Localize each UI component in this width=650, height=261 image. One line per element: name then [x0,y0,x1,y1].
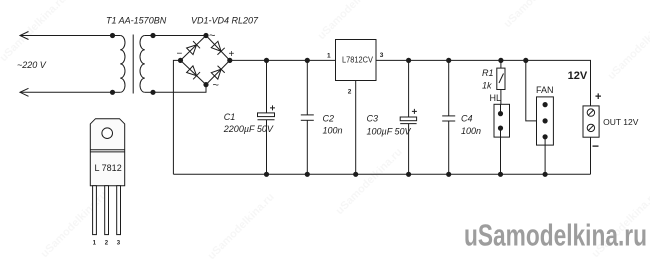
junction U1 pin2 bottom [354,172,358,176]
svg-text:FAN: FAN [536,85,554,95]
svg-text:~: ~ [209,30,215,42]
wire top rail left (bridge plus to U1 pin1) [230,59,336,61]
TO-220 package L7812 pinout drawing [90,119,124,235]
node bridge plus [228,58,232,62]
svg-text:12V: 12V [568,70,588,82]
label R1 value [482,68,494,90]
svg-text:VD1-VD4 RL207: VD1-VD4 RL207 [191,16,259,26]
label C3 value [367,114,412,137]
svg-text:HL: HL [490,93,502,103]
diode VD2 bridge top-right [206,36,230,61]
transformer T1 secondary winding [140,33,155,94]
capacitor C3 [400,60,417,174]
svg-text:C1: C1 [224,112,236,122]
junction FAN bottom [543,172,547,176]
junction C2 top [305,58,309,62]
capacitor C2 [301,60,314,174]
diode VD1 bridge top-left [181,36,207,61]
junction C2 bottom [305,172,309,176]
diode VD4 bridge bottom-right [206,60,230,84]
svg-text:3: 3 [380,52,384,59]
wire top rail right (U1 pin3 to output) [376,60,591,106]
wire AC input line bottom with arrow [20,88,113,96]
svg-text:−: − [177,49,183,60]
svg-text:100n: 100n [323,125,343,135]
diode VD3 bridge bottom-left [181,60,207,84]
svg-text:OUT 12V: OUT 12V [603,117,639,127]
connector HL [494,104,510,174]
junction HL bottom [498,172,502,176]
svg-text:−: − [592,139,599,153]
transformer T1 primary winding [110,33,125,94]
svg-text:+: + [595,91,601,103]
IC U1 L7812CV regulator box [336,40,377,81]
node bridge AC1 top [204,33,208,37]
svg-text:uSamodelkina.ru: uSamodelkina.ru [464,218,647,253]
capacitor C4 [442,60,455,174]
svg-text:1k: 1k [482,80,492,90]
wire FAN feed from top rail [526,60,545,121]
svg-text:100µF 50V: 100µF 50V [367,127,412,137]
wire U1 pin2 to bottom rail [355,81,357,175]
junction C3 bottom [407,172,411,176]
wire bridge minus to bottom rail [173,60,180,174]
svg-text:100n: 100n [461,126,481,136]
terminal block X1 output [583,106,599,174]
label C2 value [323,114,343,136]
junction C1 bottom [264,172,268,176]
label C4 value [461,114,481,136]
svg-text:T1 AA-1570BN: T1 AA-1570BN [106,16,167,26]
svg-text:+: + [229,49,235,60]
svg-text:C2: C2 [323,114,335,124]
svg-text:~220 V: ~220 V [17,60,47,70]
label C1 value [223,112,274,134]
svg-text:1: 1 [327,53,331,60]
wire secondary top to bridge AC1 [153,35,206,37]
junction C3 top [407,58,411,62]
junction C1 top [264,58,268,62]
wire secondary bottom to bridge AC2 [153,85,206,93]
svg-text:L7812CV: L7812CV [342,55,374,64]
svg-text:R1: R1 [482,68,494,78]
wire AC input line top with arrow [20,32,113,40]
junction R1 top [499,58,503,62]
svg-text:2: 2 [348,88,352,95]
transformer T1 core [132,35,134,94]
capacitor C1 [258,60,276,174]
svg-text:2200µF 50V: 2200µF 50V [223,124,274,134]
junction FAN feed top [524,58,528,62]
svg-text:~: ~ [213,80,219,92]
svg-text:L 7812: L 7812 [95,163,122,173]
svg-text:C4: C4 [461,114,473,124]
connector FAN [537,97,554,174]
resistor R1 [497,60,505,104]
junction C4 top [447,58,451,62]
node bridge minus [178,58,182,62]
node bridge AC2 bottom [204,83,208,87]
junction C4 bottom [447,172,451,176]
wire bottom rail [173,173,590,175]
svg-text:C3: C3 [367,114,379,124]
